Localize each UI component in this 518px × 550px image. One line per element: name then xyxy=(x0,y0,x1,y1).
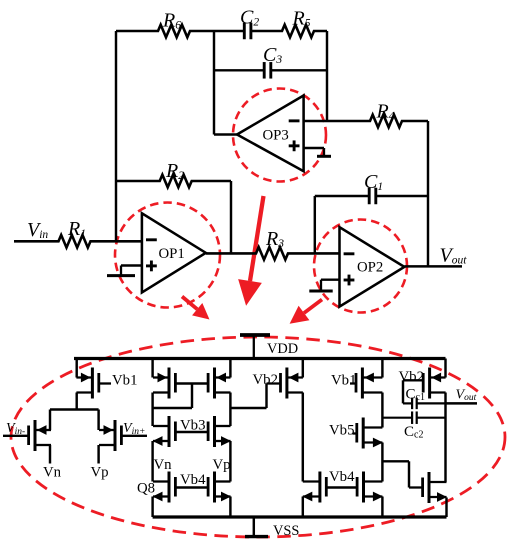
svg-text:OP2: OP2 xyxy=(357,260,383,276)
svg-text:Vb4: Vb4 xyxy=(180,472,206,488)
svg-text:Vn: Vn xyxy=(43,465,62,481)
svg-text:Vb1: Vb1 xyxy=(331,373,356,389)
svg-text:Vp: Vp xyxy=(91,465,109,481)
svg-text:Vb3: Vb3 xyxy=(180,418,205,434)
svg-text:Vb2: Vb2 xyxy=(253,372,278,388)
svg-text:Vn: Vn xyxy=(154,457,173,473)
svg-text:Vb1: Vb1 xyxy=(112,373,137,389)
svg-text:Vp: Vp xyxy=(213,457,231,473)
svg-text:OP3: OP3 xyxy=(263,128,289,144)
svg-text:Vb4: Vb4 xyxy=(329,469,355,485)
svg-text:Vb5: Vb5 xyxy=(329,423,354,439)
svg-text:Q8: Q8 xyxy=(137,481,155,497)
svg-text:VDD: VDD xyxy=(267,341,298,357)
svg-text:OP1: OP1 xyxy=(159,246,185,262)
svg-text:VSS: VSS xyxy=(273,523,299,539)
